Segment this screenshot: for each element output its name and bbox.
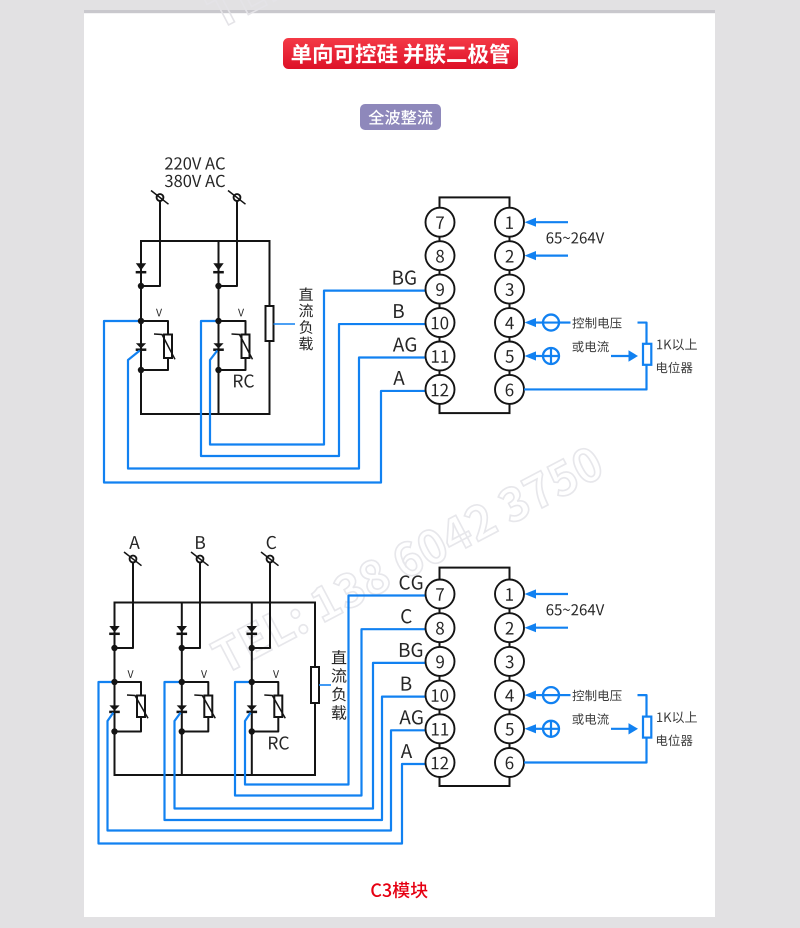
pin 10 (left) module M2: [426, 681, 455, 710]
label 1K or more module M1: [657, 338, 697, 350]
pin 7 (left) module M1: [426, 208, 455, 237]
pin 6 (right) module M1: [495, 375, 524, 404]
RC snubber element V2: [242, 335, 250, 359]
pin 4 (right) module M1: [495, 308, 524, 337]
thyristor V2: [213, 343, 223, 348]
diode D3 circuit2: [247, 626, 257, 632]
arrow into pin1 module M2: [533, 593, 569, 595]
label V thyristor circuit2: [201, 670, 207, 678]
arrow toward potentiometer module M2: [611, 728, 630, 730]
pin 3 (right) module M2: [495, 647, 524, 676]
blue wire B : SCR2 cathode to pin10: [201, 321, 426, 456]
RC snubber element V1: [164, 335, 172, 359]
blue wire B : SCR2 cathode to pin10 module M2: [165, 682, 426, 820]
wire bottom rail circuit2: [114, 774, 317, 776]
wire terminal C to node: [252, 562, 270, 648]
diode D1: [136, 263, 146, 270]
wire load label leader: [274, 323, 296, 325]
pin 2 (right) module M2: [495, 613, 524, 642]
controller module M2 outline: [440, 568, 510, 786]
pin label B module M1: [394, 304, 404, 318]
label RC: [234, 374, 254, 387]
voltage source symbol (circle-bar) at pin4 module M2: [543, 687, 559, 703]
RC snubber loop wire V2: [219, 321, 246, 370]
wire load branch vertical circuit2: [314, 603, 316, 776]
wire pin6 to potentiometer bottom module M1: [524, 365, 647, 390]
RC snubber element circuit2 branch3: [274, 696, 282, 718]
pin 10 (left) module M1: [426, 308, 455, 337]
node SCR3 anode junction circuit2: [249, 679, 255, 685]
node SCR1 anode junction: [138, 318, 144, 324]
node SCR2 cathode junction: [215, 367, 221, 373]
arrow into pin2 module M1: [533, 255, 569, 257]
thyristor V1 circuit2: [109, 705, 119, 710]
banner text: [292, 43, 510, 64]
diode D1 circuit2: [109, 626, 119, 632]
wire load branch vertical: [269, 241, 271, 414]
label 65~264V module M1: [547, 232, 605, 243]
label or current module M2: [572, 713, 608, 725]
wire pin6 to potentiometer bottom module M2: [524, 738, 647, 763]
node SCR2 cathode junction circuit2: [179, 728, 185, 734]
label 1K or more module M2: [657, 711, 697, 723]
label 380V AC: [165, 175, 225, 188]
label phase A: [129, 536, 140, 549]
label 65~264V module M2: [547, 604, 605, 615]
pin 2 (right) module M1: [495, 241, 524, 270]
thyristor V2 circuit2: [177, 705, 187, 710]
label potentiometer module M1: [657, 362, 693, 374]
wire branch1 vertical circuit2: [114, 603, 116, 776]
red title banner: [283, 38, 518, 69]
wire branch2 vertical: [218, 241, 220, 414]
label DC load (vertical) circuit2: [332, 650, 347, 664]
wire top rail circuit2: [114, 602, 317, 604]
pin 9 (left) module M2: [426, 647, 455, 676]
label phase B: [196, 536, 205, 549]
blue wire AG : SCR1 gate to pin11: [128, 351, 426, 469]
wire top rail circuit1: [140, 240, 271, 242]
pin label A module M1: [393, 371, 404, 385]
pin label AG module M2: [399, 710, 422, 724]
potentiometer R module M1: [643, 344, 651, 365]
node SCR1 cathode junction: [138, 367, 144, 373]
label control voltage module M1: [573, 317, 622, 329]
label C3 module (red): [371, 882, 427, 899]
label DC load (vertical) circuit1: [299, 287, 313, 300]
watermark TEL: 138 6042 3750 (main diagonal): [209, 445, 605, 675]
pin 5 (right) module M2: [495, 714, 524, 743]
current source symbol (circle-plus) at pin5 module M1: [543, 348, 559, 364]
pin label A module M2: [401, 744, 412, 758]
label 220V AC: [165, 157, 225, 170]
current source symbol (circle-plus) at pin5 module M2: [543, 721, 559, 737]
arrow into pin4 module M1: [525, 318, 537, 327]
pin 7 (left) module M2: [426, 580, 455, 609]
arrow into pin4 module M2: [525, 691, 537, 700]
pin 5 (right) module M1: [495, 342, 524, 371]
wire branch3 vertical circuit2: [251, 603, 253, 776]
label V (thyristor V2): [238, 309, 244, 317]
pin label C module M2: [401, 609, 411, 623]
RC snubber loop wire circuit2 branch3: [252, 682, 278, 732]
pin 4 (right) module M2: [495, 681, 524, 710]
AC input terminal phase C: [267, 556, 274, 563]
pin 11 (left) module M1: [426, 342, 455, 371]
pin label AG module M1: [393, 337, 416, 351]
arrow into pin5 module M1: [525, 351, 537, 360]
RC snubber loop wire circuit2 branch2: [182, 682, 209, 732]
wire bottom rail circuit1: [140, 413, 271, 415]
AC input terminal phase A: [130, 556, 137, 563]
thyristor V1: [136, 343, 146, 348]
blue wire BG : SCR2 gate to pin9: [210, 291, 426, 445]
node diode3 cathode junction circuit2: [249, 645, 255, 651]
label potentiometer module M2: [657, 735, 693, 747]
purple badge: [360, 104, 441, 130]
pin label B module M2: [402, 677, 412, 691]
node diode2-cathode junction: [215, 283, 221, 289]
diode D2 circuit2: [177, 626, 187, 632]
label RC circuit2: [269, 736, 289, 749]
pin 1 (right) module M1: [495, 208, 524, 237]
arrow into pin2 module M2: [533, 627, 569, 629]
badge text: [369, 110, 433, 125]
blue wire A : SCR1 cathode to pin12 module M2: [99, 682, 426, 844]
label V thyristor circuit2: [273, 670, 279, 678]
blue wire A : SCR1 cathode to pin12: [104, 321, 426, 483]
label V thyristor circuit2: [128, 670, 134, 678]
wire terminal L2 to node: [219, 201, 238, 286]
top gray strip: [84, 10, 715, 13]
wire control voltage to potentiometer top module M1: [638, 323, 647, 344]
blue wire CG : SCR3 gate to pin7 module M2: [245, 596, 426, 785]
wire branch1 vertical: [140, 241, 142, 414]
RC snubber element circuit2 branch1: [137, 696, 145, 718]
voltage source symbol (circle-bar) at pin4 module M1: [543, 315, 559, 331]
pin label BG module M1: [393, 270, 415, 284]
pin label BG module M2: [400, 643, 422, 657]
blue wire BG : SCR2 gate to pin9 module M2: [175, 663, 426, 809]
label phase C: [267, 536, 277, 549]
pin 12 (left) module M1: [426, 375, 455, 404]
thyristor V3 circuit2: [247, 705, 257, 710]
wire terminal B to node: [182, 562, 200, 648]
arrow into pin5 module M2: [525, 724, 537, 733]
pin 8 (left) module M1: [426, 241, 455, 270]
label or current module M1: [572, 341, 608, 353]
node diode2 cathode junction circuit2: [179, 645, 185, 651]
label V (thyristor V1): [156, 309, 162, 317]
wire terminal A to node: [115, 562, 134, 648]
label control voltage module M2: [573, 690, 622, 702]
AC input terminal phase B: [197, 556, 204, 563]
pin label CG module M2: [400, 575, 423, 589]
arrow toward potentiometer module M1: [611, 355, 630, 357]
wire terminal L1 to node: [141, 201, 160, 286]
wire control voltage to potentiometer top module M2: [638, 695, 647, 717]
DC load resistor circuit2: [311, 667, 319, 703]
AC input terminal L2: [234, 194, 241, 201]
pin 8 (left) module M2: [426, 613, 455, 642]
node diode1-cathode junction: [138, 283, 144, 289]
RC snubber loop wire V1: [141, 321, 168, 370]
RC snubber loop wire circuit2 branch1: [115, 682, 142, 732]
DC load resistor circuit1: [266, 306, 274, 341]
diode D2: [213, 263, 223, 270]
potentiometer R module M2: [643, 717, 651, 738]
pin 1 (right) module M2: [495, 580, 524, 609]
controller module M1 outline: [440, 197, 510, 413]
RC snubber element circuit2 branch2: [204, 696, 212, 718]
pin 12 (left) module M2: [426, 748, 455, 777]
pin 6 (right) module M2: [495, 748, 524, 777]
pin 11 (left) module M2: [426, 714, 455, 743]
node diode1 cathode junction circuit2: [111, 645, 117, 651]
node SCR2 anode junction: [215, 318, 221, 324]
blue wire AG : SCR1 gate to pin11 module M2: [108, 713, 426, 831]
white content card: [84, 13, 715, 917]
arrow into pin1 module M1: [533, 221, 569, 223]
node SCR3 cathode junction circuit2: [249, 728, 255, 734]
node SCR1 cathode junction circuit2: [111, 728, 117, 734]
pin 9 (left) module M1: [426, 275, 455, 304]
wire branch2 vertical circuit2: [181, 603, 183, 776]
node SCR2 anode junction circuit2: [179, 679, 185, 685]
AC input terminal L1: [157, 194, 164, 201]
wire load label leader circuit2: [319, 684, 331, 686]
pin 3 (right) module M1: [495, 275, 524, 304]
blue wire C : SCR3 cathode to pin8 module M2: [235, 629, 426, 795]
node SCR1 anode junction circuit2: [111, 679, 117, 685]
watermark TEL: 138 6042 3750 (top partial): [204, 0, 600, 30]
